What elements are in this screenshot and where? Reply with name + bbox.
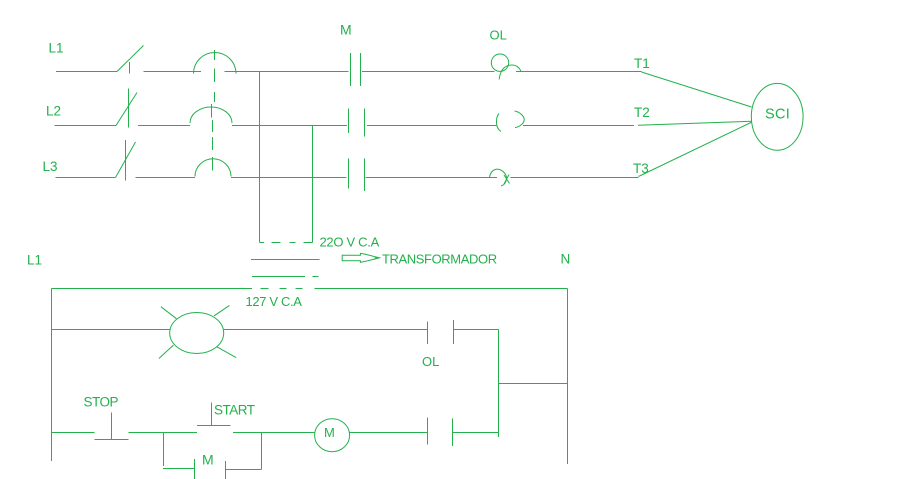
wire bus from L1 down (259, 72, 261, 243)
svg-text:L1: L1 (27, 253, 42, 268)
branch left vertical (163, 433, 165, 467)
breaker pole L2 arc (190, 107, 232, 123)
dashed jumper 220V (260, 242, 313, 244)
ladder left rail (51, 289, 53, 462)
switch L2 contact tick (128, 89, 130, 128)
wire OL contact to drop (454, 329, 499, 331)
svg-text:N: N (561, 251, 571, 266)
wire lamp row left (52, 329, 171, 331)
overload OL pole3 cross (504, 175, 510, 185)
wire L2 entry (55, 125, 117, 127)
svg-text:L2: L2 (46, 104, 61, 119)
wire lamp to OL contact (224, 329, 428, 331)
wire L2 to T2 (523, 125, 634, 127)
contact OL bars (428, 320, 454, 344)
pilot lamp rays (159, 305, 236, 358)
contact Maux bar right (225, 461, 227, 479)
wire T2 to motor (638, 121, 752, 125)
switch L2 blade (116, 93, 137, 126)
wire L3 to T3 (511, 177, 639, 179)
svg-text:127 V C.A: 127 V C.A (246, 294, 303, 309)
wire L3 after switch (136, 177, 196, 179)
contact M pole2 bars (349, 109, 365, 137)
wire T1 to motor (642, 72, 752, 107)
pushbutton STOP stem (111, 413, 113, 440)
contact M pole3 bars (349, 159, 365, 192)
overload OL pole2 right arc (515, 111, 525, 128)
pushbutton START bar (197, 425, 231, 427)
contact right bars (428, 418, 453, 447)
breaker pole L3 tick (212, 157, 214, 171)
wire STOP to branch (129, 432, 198, 434)
overload OL pole1 arch (499, 65, 521, 79)
wire L1 to OL (362, 71, 495, 73)
branch bottom right wire (226, 469, 262, 471)
overload OL pole1 circle (491, 54, 508, 71)
breaker pole L1 tick (214, 50, 216, 60)
breaker pole L2 tick (211, 104, 213, 118)
svg-text:STOP: STOP (84, 395, 119, 410)
svg-text:22O V C.A: 22O V C.A (320, 234, 380, 249)
pilot lamp circle (170, 313, 224, 354)
wire contact to drop (453, 432, 499, 434)
wire L3 to M contact (231, 177, 347, 179)
overload OL pole2 left paren (496, 114, 501, 132)
breaker linkage dashed (213, 69, 215, 151)
wire coil to contact (350, 432, 428, 434)
svg-text:M: M (202, 452, 214, 468)
switch L3 contact tick (125, 140, 127, 181)
svg-text:OL: OL (422, 354, 439, 369)
branch bottom left wire (163, 468, 195, 470)
wire L1 entry (56, 71, 117, 73)
wire L3 to OL (366, 177, 498, 179)
svg-text:T1: T1 (634, 56, 650, 71)
switch L1 contact tick (129, 62, 131, 74)
transformer secondary (252, 276, 319, 278)
svg-text:T2: T2 (634, 105, 650, 120)
wire L3 entry (56, 177, 116, 179)
wire drop vertical (498, 330, 500, 438)
arrow callout (342, 253, 379, 262)
motor SCI circle (751, 83, 803, 150)
wire T3 to motor (639, 122, 753, 177)
ladder neutral rail (567, 289, 569, 465)
pushbutton START stem (211, 403, 213, 426)
contact M pole1 bars (351, 53, 361, 86)
svg-text:T3: T3 (633, 161, 649, 176)
wire L2 to OL (367, 125, 497, 127)
svg-text:SCI: SCI (765, 107, 790, 123)
branch right vertical (261, 433, 263, 470)
contact Maux bar left (194, 459, 196, 479)
pushbutton STOP bar (95, 439, 129, 441)
breaker pole L1 arc (194, 52, 237, 73)
switch L3 blade (116, 142, 136, 178)
wire START to coil (233, 432, 315, 434)
wire L2 after switch (138, 125, 190, 127)
wire drop to neutral (499, 383, 568, 385)
ladder top rail (52, 288, 568, 290)
breaker pole L3 arc (195, 159, 231, 177)
svg-text:M: M (324, 425, 335, 440)
coil M circle (315, 419, 350, 452)
transformer primary (251, 259, 320, 261)
svg-text:L1: L1 (49, 41, 64, 56)
wire bus from L2 down (312, 126, 314, 243)
switch L1 blade (117, 46, 144, 72)
svg-text:M: M (340, 21, 352, 37)
wire control row left (52, 432, 95, 434)
overload OL pole3 pigtail (490, 169, 507, 186)
wire L2 to M contact (232, 125, 347, 127)
svg-text:L3: L3 (43, 159, 58, 174)
wire L1 to M contact (225, 71, 349, 73)
svg-text:TRANSFORMADOR: TRANSFORMADOR (382, 251, 497, 266)
wire L1 to T1 (516, 71, 642, 73)
wire L1 after switch (144, 71, 202, 73)
svg-text:OL: OL (490, 28, 507, 43)
svg-text:START: START (214, 403, 255, 418)
